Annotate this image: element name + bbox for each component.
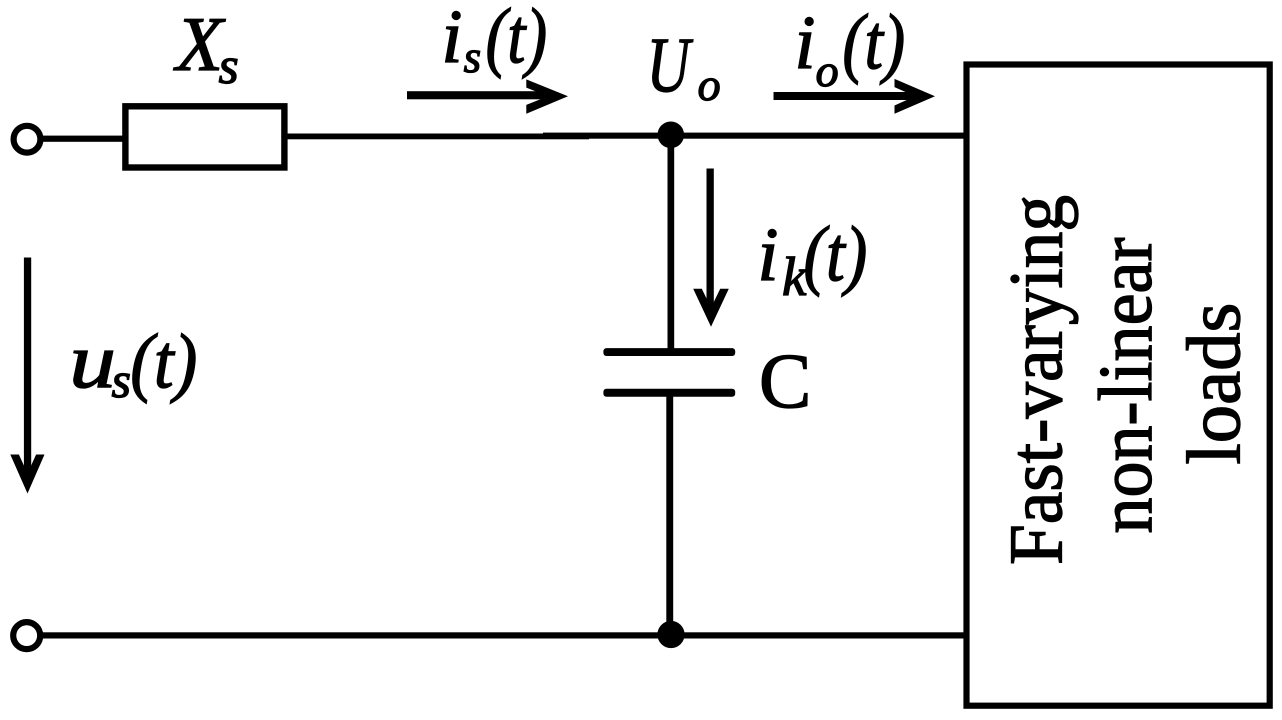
svg-text:i: i	[757, 213, 778, 297]
svg-text:C: C	[759, 337, 811, 424]
svg-text:U: U	[647, 23, 694, 109]
arrow i_s	[407, 79, 568, 113]
wire terminal to resistor	[42, 136, 125, 142]
arrow u_s	[10, 258, 44, 494]
load box	[967, 65, 1270, 706]
wire node Uo to load	[543, 133, 967, 139]
svg-text:s: s	[219, 38, 239, 95]
arrow i_k	[693, 169, 729, 327]
label i_s(t)	[441, 0, 547, 82]
wire node Uo down to capacitor	[668, 134, 675, 351]
terminal top-left	[14, 126, 41, 153]
svg-text:(t): (t)	[130, 319, 197, 404]
arrow i_o	[774, 79, 936, 114]
wire resistor to node Uo	[287, 134, 589, 140]
capacitor C bottom plate	[603, 389, 735, 397]
resistor X_s	[125, 106, 284, 167]
label i_o(t)	[794, 0, 905, 96]
wire capacitor down to bottom node	[666, 394, 673, 637]
terminal bottom-left	[13, 622, 40, 649]
svg-text:s: s	[112, 352, 131, 408]
capacitor C top plate	[603, 348, 735, 356]
svg-text:non-linear: non-linear	[1084, 238, 1168, 534]
label u_s(t)	[69, 317, 197, 408]
label X_s	[173, 1, 239, 95]
svg-text:(t): (t)	[486, 0, 548, 79]
svg-text:s: s	[464, 32, 482, 82]
svg-text:u: u	[69, 317, 116, 404]
svg-text:loads: loads	[1173, 303, 1257, 465]
svg-text:(t): (t)	[803, 211, 867, 298]
svg-text:i: i	[794, 1, 815, 85]
node Uo junction dot	[658, 122, 685, 149]
svg-text:o: o	[698, 59, 721, 110]
svg-text:o: o	[816, 45, 839, 96]
svg-text:i: i	[441, 0, 462, 79]
bottom node junction dot	[657, 621, 684, 648]
wire bottom terminal to load	[42, 632, 967, 638]
svg-text:(t): (t)	[842, 0, 905, 85]
svg-text:Fast-varying: Fast-varying	[995, 195, 1079, 565]
label U_o	[647, 23, 721, 110]
label i_k(t)	[757, 211, 867, 307]
